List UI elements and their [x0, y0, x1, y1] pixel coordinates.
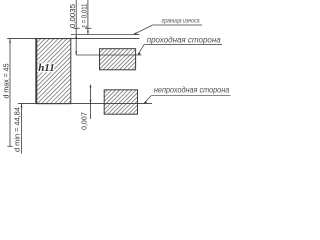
svg-text:z = 0,011: z = 0,011: [82, 3, 89, 28]
svg-text:граница износа: граница износа: [162, 18, 201, 24]
no-go gauge tolerance zone rectangle: [104, 90, 137, 114]
dimension z: [85, 0, 91, 35]
svg-text:d min = 44,84: d min = 44,84: [14, 107, 21, 152]
go-gauge tolerance zone rectangle: [100, 49, 136, 70]
svg-text:h11: h11: [38, 62, 55, 74]
callout: непроходная сторона: [144, 86, 231, 104]
svg-text:0,0035: 0,0035: [70, 4, 77, 28]
callout: граница износа: [133, 18, 202, 34]
wire: d min line with left extension: [18, 103, 152, 105]
svg-text:0,007: 0,007: [82, 112, 89, 130]
wire: d max line with left extension: [7, 38, 139, 40]
dimension 0,007: [90, 85, 92, 120]
shaft tolerance zone rectangle h11: [36, 39, 71, 104]
wire: go-gauge center line: [76, 54, 141, 56]
dimension d max: [7, 39, 12, 147]
callout: проходная сторона: [138, 35, 223, 55]
dimension d min: [21, 104, 23, 154]
svg-text:непроходная сторона: непроходная сторона: [154, 86, 230, 95]
dimension 0,0035 (gauge tolerance H/2): [74, 0, 80, 55]
wire: wear limit line: [71, 34, 140, 36]
svg-text:d max = 45: d max = 45: [4, 63, 11, 98]
svg-text:проходная сторона: проходная сторона: [147, 35, 221, 44]
